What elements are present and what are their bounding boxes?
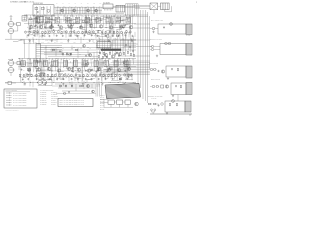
ribbon top rung (126, 3, 139, 5)
strip2 transistor row (27, 67, 130, 72)
bottom vertical drops (96, 84, 101, 97)
ribbon wires vertical (126, 4, 139, 16)
bus junctions (46, 47, 89, 52)
IC1 block (103, 4, 113, 9)
vertical trunk wire 5 (147, 12, 149, 103)
wire gang down (10, 34, 12, 40)
voltage table (100, 94, 105, 111)
antenna loop (155, 24, 186, 34)
strip1 transistor row (29, 24, 132, 29)
antenna jack J1 (150, 27, 155, 30)
input coupling cap C20 (17, 61, 20, 64)
strip1 mid caps (29, 24, 126, 30)
headphone loop (165, 101, 185, 112)
svg-text:2: 2 (196, 2, 197, 4)
bus resistors (62, 53, 71, 56)
switch block contacts (36, 45, 40, 60)
AC plug symbol (151, 109, 156, 114)
tuner block A (37, 15, 44, 23)
svg-text:MODEL CR-1000: MODEL CR-1000 (24, 1, 34, 3)
speaker L coil (186, 66, 192, 78)
strip2 scattered value labels (20, 61, 105, 78)
center mesh horiz (96, 41, 136, 48)
top band text specks (56, 3, 102, 5)
strip1 junction dots (26, 15, 134, 40)
ribbon peel wires (133, 5, 150, 8)
note box text (60, 99, 85, 106)
dipole coil (186, 44, 192, 56)
strip2 misc small parts (36, 62, 132, 80)
front end FET Q1 (47, 9, 50, 12)
bottom circuit wires (55, 84, 100, 91)
meter drop wire 1 (153, 10, 155, 14)
antenna lamp PL1 (170, 23, 173, 26)
svg-text:0.047: 0.047 (61, 75, 64, 77)
center mesh extra (97, 36, 133, 57)
strip1 bottom text row (28, 40, 96, 43)
dipole ground (156, 55, 158, 57)
strip1 mid rail (24, 23, 136, 25)
top band transistor Q4 (87, 9, 90, 12)
svg-text:Q10 2SC945: Q10 2SC945 (51, 96, 58, 98)
filter inner (118, 5, 123, 12)
svg-text:OSC: OSC (37, 15, 39, 17)
signal bus wires (40, 46, 62, 54)
tuner block B (45, 22, 52, 28)
headphone label (148, 95, 163, 100)
bottom left part (5, 82, 16, 85)
bottom circuit stubs (60, 84, 92, 91)
antenna cap C90 (163, 26, 165, 28)
strip2 junction dots (19, 58, 134, 83)
bus extra wire rows (44, 50, 96, 54)
svg-text:0.047: 0.047 (98, 32, 101, 34)
IC2 pins (99, 48, 111, 50)
strip2 bottom rail (5, 82, 136, 84)
antenna rod coil (186, 24, 192, 35)
top rail wire 2 (54, 13, 124, 15)
FM antenna label (151, 19, 163, 22)
mode label text (45, 37, 59, 42)
strip2 lower stub wires (21, 72, 135, 87)
top band tiny labels (57, 6, 101, 8)
svg-text:2SC: 2SC (90, 67, 92, 69)
center transistor Q22 (118, 52, 121, 55)
center transistor Q21 (111, 55, 114, 58)
headphone chain (148, 103, 159, 106)
front end coil L1 (35, 7, 38, 10)
svg-text:Q5 2SC945: Q5 2SC945 (40, 100, 47, 102)
long bus wire A (40, 47, 100, 49)
meter drop wire 2 (165, 6, 172, 12)
strip1 scattered value labels (30, 19, 124, 36)
strip2 mid rail (18, 66, 136, 68)
center resistors (99, 51, 128, 55)
strip1 vertical link wires (28, 15, 133, 29)
legend switch contacts (6, 93, 12, 106)
dipole loop (154, 44, 186, 55)
speaker L ground (167, 77, 169, 79)
speaker R to headphone wire (177, 95, 179, 102)
IF ladder hang parts (58, 14, 94, 17)
svg-text:Q9 2SD235: Q9 2SD235 (51, 94, 58, 96)
meter box M1 (150, 3, 158, 10)
headphone inner lamp (172, 100, 175, 103)
top band transistor Q4b (95, 9, 98, 12)
IF ladder mid rail (56, 9, 102, 11)
headphone ground (166, 112, 168, 114)
strip1 ground symbols (29, 40, 134, 42)
strip1 bottom wire (24, 43, 110, 45)
feed wire bundle (100, 61, 150, 75)
page number (196, 2, 197, 4)
speaker L jack (150, 68, 153, 71)
strip1 resistor ladder (25, 30, 131, 34)
antenna coil T1 (22, 16, 27, 21)
dipole jacks (150, 45, 154, 50)
bottom circuit extra parts (59, 85, 94, 94)
antenna coil label (186, 35, 191, 37)
strip2 top rail (18, 57, 136, 59)
input wires (11, 63, 17, 76)
speaker L inner cap (171, 68, 173, 70)
legend box frame (4, 89, 37, 108)
svg-text:10.7M: 10.7M (41, 41, 44, 43)
headphone jack J5 (161, 103, 164, 106)
junction dots top band (58, 7, 94, 14)
strip1 top rail (24, 14, 136, 16)
feed wire 1 (120, 39, 150, 41)
long bus wire B (44, 51, 100, 53)
feed wire upper (132, 27, 150, 29)
svg-text:B3 6.4V: B3 6.4V (100, 99, 104, 101)
svg-text:D2 WZ090: D2 WZ090 (51, 102, 57, 104)
IF ladder wires (56, 7, 101, 14)
legend rows text (13, 92, 26, 107)
tuning meter M2 (161, 3, 170, 10)
strip2 interconnect wire segments (19, 61, 133, 80)
svg-text:4.7K: 4.7K (84, 64, 86, 66)
strip1 interconnect wire segments (27, 18, 129, 37)
bus transistor Q19 (88, 53, 91, 56)
strip2 ground symbols (24, 83, 126, 85)
parts list header (40, 88, 54, 91)
front end tuning sections (37, 6, 51, 14)
speaker R label (151, 78, 160, 81)
inter-strip connector wires (25, 39, 34, 62)
transformer wires (47, 79, 52, 85)
strip2 capacitor row (22, 78, 128, 81)
svg-text:B5 2.2V: B5 2.2V (100, 103, 104, 105)
dipole balun T21 (165, 42, 171, 45)
phono jack J3 (7, 67, 15, 72)
meter link wire (158, 5, 161, 7)
strip1 bottom rail (5, 38, 136, 40)
switch S1 (13, 40, 24, 44)
svg-text:Q8 2SB507: Q8 2SB507 (51, 92, 57, 94)
output transformer T20 (38, 79, 47, 85)
svg-text:Q11 2SC1222: Q11 2SC1222 (51, 98, 59, 100)
below connector wires (100, 100, 125, 103)
strip1 long vertical wires (29, 15, 131, 39)
speaker R parts (156, 85, 169, 88)
strip1 lower stub wires (27, 29, 135, 44)
svg-text:B2 9.2V: B2 9.2V (100, 97, 104, 99)
svg-text:Q3 2SC711: Q3 2SC711 (40, 96, 46, 98)
strip2 sub rails (22, 63, 130, 77)
tuning gang VC1b (7, 27, 15, 33)
IC2 label (98, 40, 100, 42)
phono jack J2 (7, 60, 15, 65)
top wire to meters (113, 5, 150, 7)
top band transistor Q3 (73, 9, 76, 12)
parts list column 1 (40, 92, 47, 107)
strip2 resistor ladder (19, 73, 132, 77)
svg-text:D3 10D1: D3 10D1 (51, 104, 56, 106)
ceramic filter CF1 (116, 5, 125, 12)
trimmer CT1 (14, 22, 20, 25)
relay box K3 (125, 100, 130, 104)
front end coil L2 (42, 7, 45, 10)
bus drop wires (46, 46, 94, 59)
strip1 capacitor row (27, 34, 133, 37)
bus extra parts (52, 44, 87, 57)
function switch block (36, 44, 40, 63)
speaker R inner (175, 85, 182, 88)
strip2 filler stub wires (25, 60, 130, 80)
speaker L inner res (177, 68, 178, 71)
center small parts (98, 53, 134, 59)
speaker R ground (172, 94, 174, 96)
top rail wire (54, 6, 140, 8)
phono input arrow (8, 59, 13, 60)
strip1 sub rails (28, 20, 130, 34)
connector block label (108, 80, 119, 83)
feed wire 3 (118, 55, 150, 57)
vertical trunk wire 1 (137, 14, 139, 86)
center wires (111, 40, 138, 50)
vertical trunk wire 3 (142, 10, 144, 99)
antenna ground (152, 31, 154, 33)
speaker R coil (186, 83, 192, 95)
center transistor Q20 (104, 53, 107, 56)
legend box title (6, 90, 31, 92)
speaker R loop (171, 83, 186, 95)
svg-text:B4 4.1V: B4 4.1V (100, 101, 104, 103)
vertical trunk wire 4 (145, 10, 147, 101)
top band lower wires (100, 15, 148, 17)
headphone inner resistors (169, 103, 177, 106)
strip2 component value labels (20, 59, 135, 78)
speaker L parts (153, 69, 165, 73)
power bus dark bar (101, 49, 121, 51)
strip1 scatter junction dots (28, 18, 122, 34)
svg-text:Q7 2SD313: Q7 2SD313 (40, 104, 47, 106)
strip2 IF transformer cans (21, 61, 128, 67)
dipole label (150, 38, 162, 41)
bottom rail wire (150, 114, 192, 116)
antenna symbol (10, 16, 13, 21)
svg-text:4.7K: 4.7K (50, 62, 52, 64)
bus extra stubs (52, 46, 88, 56)
strip1 filler stub wires (34, 16, 122, 37)
center caps (125, 44, 134, 52)
tuning gang VC1a (7, 18, 15, 27)
relay box K1 (108, 100, 114, 104)
relay box K2 (117, 100, 123, 104)
front end cap C1 (37, 11, 39, 13)
headphone coil (185, 101, 191, 112)
below bottom wire (104, 100, 133, 108)
svg-text:B6 1.4V: B6 1.4V (100, 105, 104, 107)
svg-text:Q6 2SC1312: Q6 2SC1312 (40, 102, 47, 104)
strip2 long vertical wires (21, 58, 128, 82)
speaker L label (149, 62, 158, 65)
section divider wire (96, 44, 98, 84)
strip2 mid caps (20, 68, 126, 73)
speaker R jack (150, 85, 155, 88)
title text (10, 0, 34, 3)
footnote text (5, 109, 19, 112)
IC1 pins (105, 9, 113, 11)
FM front end block (33, 5, 54, 16)
parts list column 2 (51, 92, 59, 107)
long bus wire C (48, 55, 98, 57)
svg-text:B8 0.2V: B8 0.2V (100, 109, 104, 111)
svg-text:4.7K: 4.7K (96, 63, 98, 65)
svg-text:Q1 2SC535: Q1 2SC535 (40, 92, 47, 94)
svg-text:B1 11.8V: B1 11.8V (100, 94, 105, 96)
svg-text:Q2 2SC710: Q2 2SC710 (40, 94, 47, 96)
svg-text:D1 1N60: D1 1N60 (51, 100, 56, 102)
vertical trunk wire 6 (149, 16, 151, 69)
strip1 misc small parts (30, 18, 126, 37)
svg-text:4.7K: 4.7K (30, 19, 32, 21)
feed wire upper2 (134, 23, 150, 25)
strip1 component value labels (26, 16, 133, 35)
IC2 block (97, 42, 111, 48)
svg-text:FM ROD: FM ROD (186, 35, 191, 37)
svg-text:455K: 455K (35, 41, 38, 43)
bottom circuit parts (65, 84, 89, 89)
bottom rail label (147, 112, 148, 114)
FM front end label (33, 3, 43, 5)
top band transistor Q2 (61, 9, 64, 12)
speaker L loop (166, 66, 186, 77)
svg-text:B7 0.6V: B7 0.6V (100, 107, 104, 109)
feed wire 2 (124, 46, 152, 48)
strip1 IF transformer cans (36, 17, 131, 23)
strip2 vertical link wires (19, 58, 133, 72)
vertical trunk wire 2 (140, 10, 142, 88)
bottom circuit wire row 4 (52, 86, 98, 94)
note box frame (58, 99, 93, 107)
meter M1 cross (150, 3, 158, 10)
wire gang to coil (15, 26, 18, 31)
IC1 label (103, 1, 110, 4)
strip2 scatter junction dots (20, 62, 129, 79)
hatched connector block (105, 83, 141, 98)
bus extra labels (44, 48, 91, 50)
svg-text:MPX: MPX (93, 41, 96, 43)
power transistor Q30 (135, 102, 139, 106)
